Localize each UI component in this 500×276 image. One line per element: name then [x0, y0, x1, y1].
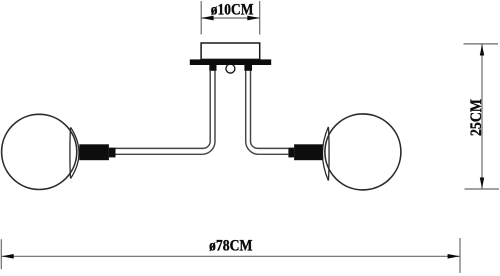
dim ø78CM arrow right: [448, 254, 460, 259]
dim ø78CM extension line right: [459, 238, 461, 273]
dim ø10CM extension line left: [200, 1, 202, 35]
left bulb neck ring: [70, 127, 79, 178]
dim ø78CM extension line left: [0, 239, 2, 269]
left holder step: [109, 148, 116, 158]
svg-text:ø78CM: ø78CM: [209, 238, 253, 255]
right holder step: [288, 148, 294, 158]
right arm tube: [246, 71, 289, 155]
dim 25CM arrow up: [480, 44, 484, 55]
dim ø78CM dimension line: [1, 255, 460, 257]
right lamp holder: [294, 144, 323, 160]
right bulb globe: [325, 114, 401, 190]
dim 25CM top tick: [464, 43, 499, 45]
svg-text:25CM: 25CM: [468, 99, 485, 136]
dim ø10CM dimension line: [201, 17, 260, 19]
right arm socket block: [244, 65, 252, 71]
dim ø78CM arrow left: [2, 254, 14, 259]
left arm tube: [116, 71, 216, 155]
dim ø10CM arrow left: [201, 16, 213, 21]
dim 25CM dimension line: [481, 44, 483, 188]
svg-text:ø10CM: ø10CM: [211, 2, 254, 19]
dim ø10CM extension line right: [259, 1, 261, 35]
center knob: [226, 64, 235, 73]
dim 25CM arrow down: [480, 178, 484, 189]
right bulb neck ring: [323, 127, 330, 181]
canopy cup: [201, 43, 260, 59]
left arm socket block: [209, 65, 216, 71]
mounting bar: [190, 59, 271, 65]
dim ø10CM arrow right: [247, 16, 259, 21]
left bulb globe: [2, 114, 77, 189]
left lamp holder: [79, 144, 109, 160]
dim 25CM bottom tick: [465, 188, 500, 190]
